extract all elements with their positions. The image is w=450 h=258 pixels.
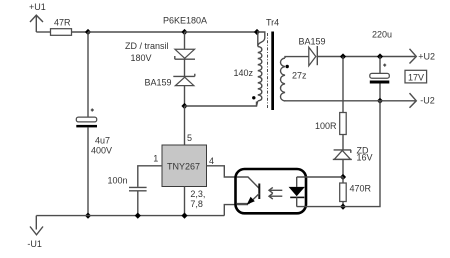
svg-text:1: 1 [153,154,158,164]
svg-text:400V: 400V [91,145,112,155]
svg-text:5: 5 [187,133,192,143]
ground rail -U1 [36,215,224,217]
svg-text:17V: 17V [408,72,424,82]
junction node E [377,53,383,59]
terminal arrow +U2 [410,49,417,64]
svg-text:BA159: BA159 [299,36,326,46]
pins 2,3,7,8 wire [184,187,186,216]
box 17V [405,70,427,83]
junction U1 source node [85,213,91,219]
wire LED cathode to node H [297,206,343,208]
svg-text:100n: 100n [108,176,128,186]
svg-text:27z: 27z [292,70,307,80]
pin 1 wire [138,166,162,187]
wire 100R to zener ZD 16V [342,135,344,150]
svg-text:TNY267: TNY267 [167,161,200,171]
capacitor 220u polarity plus [383,64,386,67]
wire from +U1 to resistor R1 [36,31,50,33]
terminal arrow -U1 [30,216,43,235]
svg-text:4: 4 [209,156,214,166]
transformer Tr4 secondary winding 27z [281,57,309,101]
wire node B to transil [184,32,186,49]
junction node A [85,29,91,35]
capacitor 220u branch [379,57,381,74]
svg-text:47R: 47R [54,17,71,27]
svg-text:P6KE180A: P6KE180A [163,16,207,26]
terminal arrow -U2 [410,93,417,108]
diode BA159 vertical [173,74,195,86]
diode BA159 horizontal [309,46,318,66]
svg-text:2,3,: 2,3, [190,189,205,199]
svg-text:-U1: -U1 [27,239,42,249]
junction node C [181,103,187,109]
junction C1 bottom [135,213,141,219]
light arrow 1 [269,187,282,193]
resistor 100R [340,113,347,135]
wire 470R top [342,177,344,183]
wire diode to +U2 [317,56,415,58]
junction node H [340,204,346,210]
transformer Tr4 primary winding 140z [257,32,265,106]
wire secondary bottom to -U2 [285,100,415,102]
wire node H to right riser [343,101,380,207]
pin 4 wire [207,166,237,177]
svg-text:16V: 16V [357,152,373,162]
transformer core dash-dot line [267,33,269,108]
wire node A to node B [88,31,185,33]
optocoupler U2 body [236,169,307,213]
junction node B [181,29,187,35]
wire node B to transformer primary top [185,31,258,33]
svg-text:220u: 220u [372,29,392,39]
optocoupler LED anode wire [296,177,298,187]
junction node G [340,174,346,180]
junction primary top dot [254,29,260,35]
wire node C to primary bottom [185,102,257,107]
zener ZD 16V [333,150,352,160]
optocoupler emitter arrowhead [247,197,255,205]
resistor 47R [51,29,72,36]
secondary phase dot [286,65,289,68]
svg-text:+U1: +U1 [29,2,46,12]
svg-text:470R: 470R [350,184,372,194]
svg-text:180V: 180V [131,53,152,63]
wire LED anode to node G [297,176,343,178]
wire capacitor C1 branch top [87,32,89,117]
optocoupler phototransistor bar [258,184,260,200]
svg-text:140z: 140z [234,68,254,78]
wire 47R to node A [72,31,89,33]
wire node D to 100R [342,57,344,113]
capacitor 4u7 400V polarity plus [91,109,94,112]
wire 470R bottom to node H [342,202,344,207]
capacitor 100n [129,187,147,190]
svg-text:7,8: 7,8 [190,199,203,209]
light arrow 2 [269,193,282,199]
svg-text:-U2: -U2 [420,96,435,106]
wire diode D2 to node C [184,86,186,106]
svg-text:ZD / transil: ZD / transil [125,41,169,51]
wire rail step up to optocoupler emitter [224,205,237,216]
transformer core bar [271,32,274,111]
optocoupler LED bar [290,196,304,198]
wire capacitor C1 branch bottom [87,127,89,215]
wire zener to node G [342,159,344,177]
capacitor 4u7 400V [76,117,97,127]
capacitor 220u [370,73,390,83]
svg-text:4u7: 4u7 [95,135,110,145]
junction node F [377,98,383,104]
wire node C down to U1 pin 5 [184,106,186,145]
optocoupler phototransistor collector [237,177,259,189]
optocoupler LED cathode wire [296,197,298,206]
svg-text:100R: 100R [315,121,337,131]
svg-text:Tr4: Tr4 [266,18,279,28]
IC U1 TNY267 body [162,145,207,187]
primary phase dot [252,96,255,99]
svg-text:+U2: +U2 [418,51,435,61]
wire 100n bottom [137,191,139,215]
node +U1 terminal arrow [30,15,43,32]
resistor 470R [340,183,347,202]
optocoupler phototransistor emitter [237,194,259,205]
svg-text:BA159: BA159 [145,77,172,87]
diode transil P6KE180A [175,49,195,59]
wire 220u bottom [379,84,381,101]
optocoupler LED triangle [289,187,305,196]
junction 100n bottom [181,213,187,219]
junction node D [340,53,346,59]
wire transil to diode D2 [184,59,186,76]
